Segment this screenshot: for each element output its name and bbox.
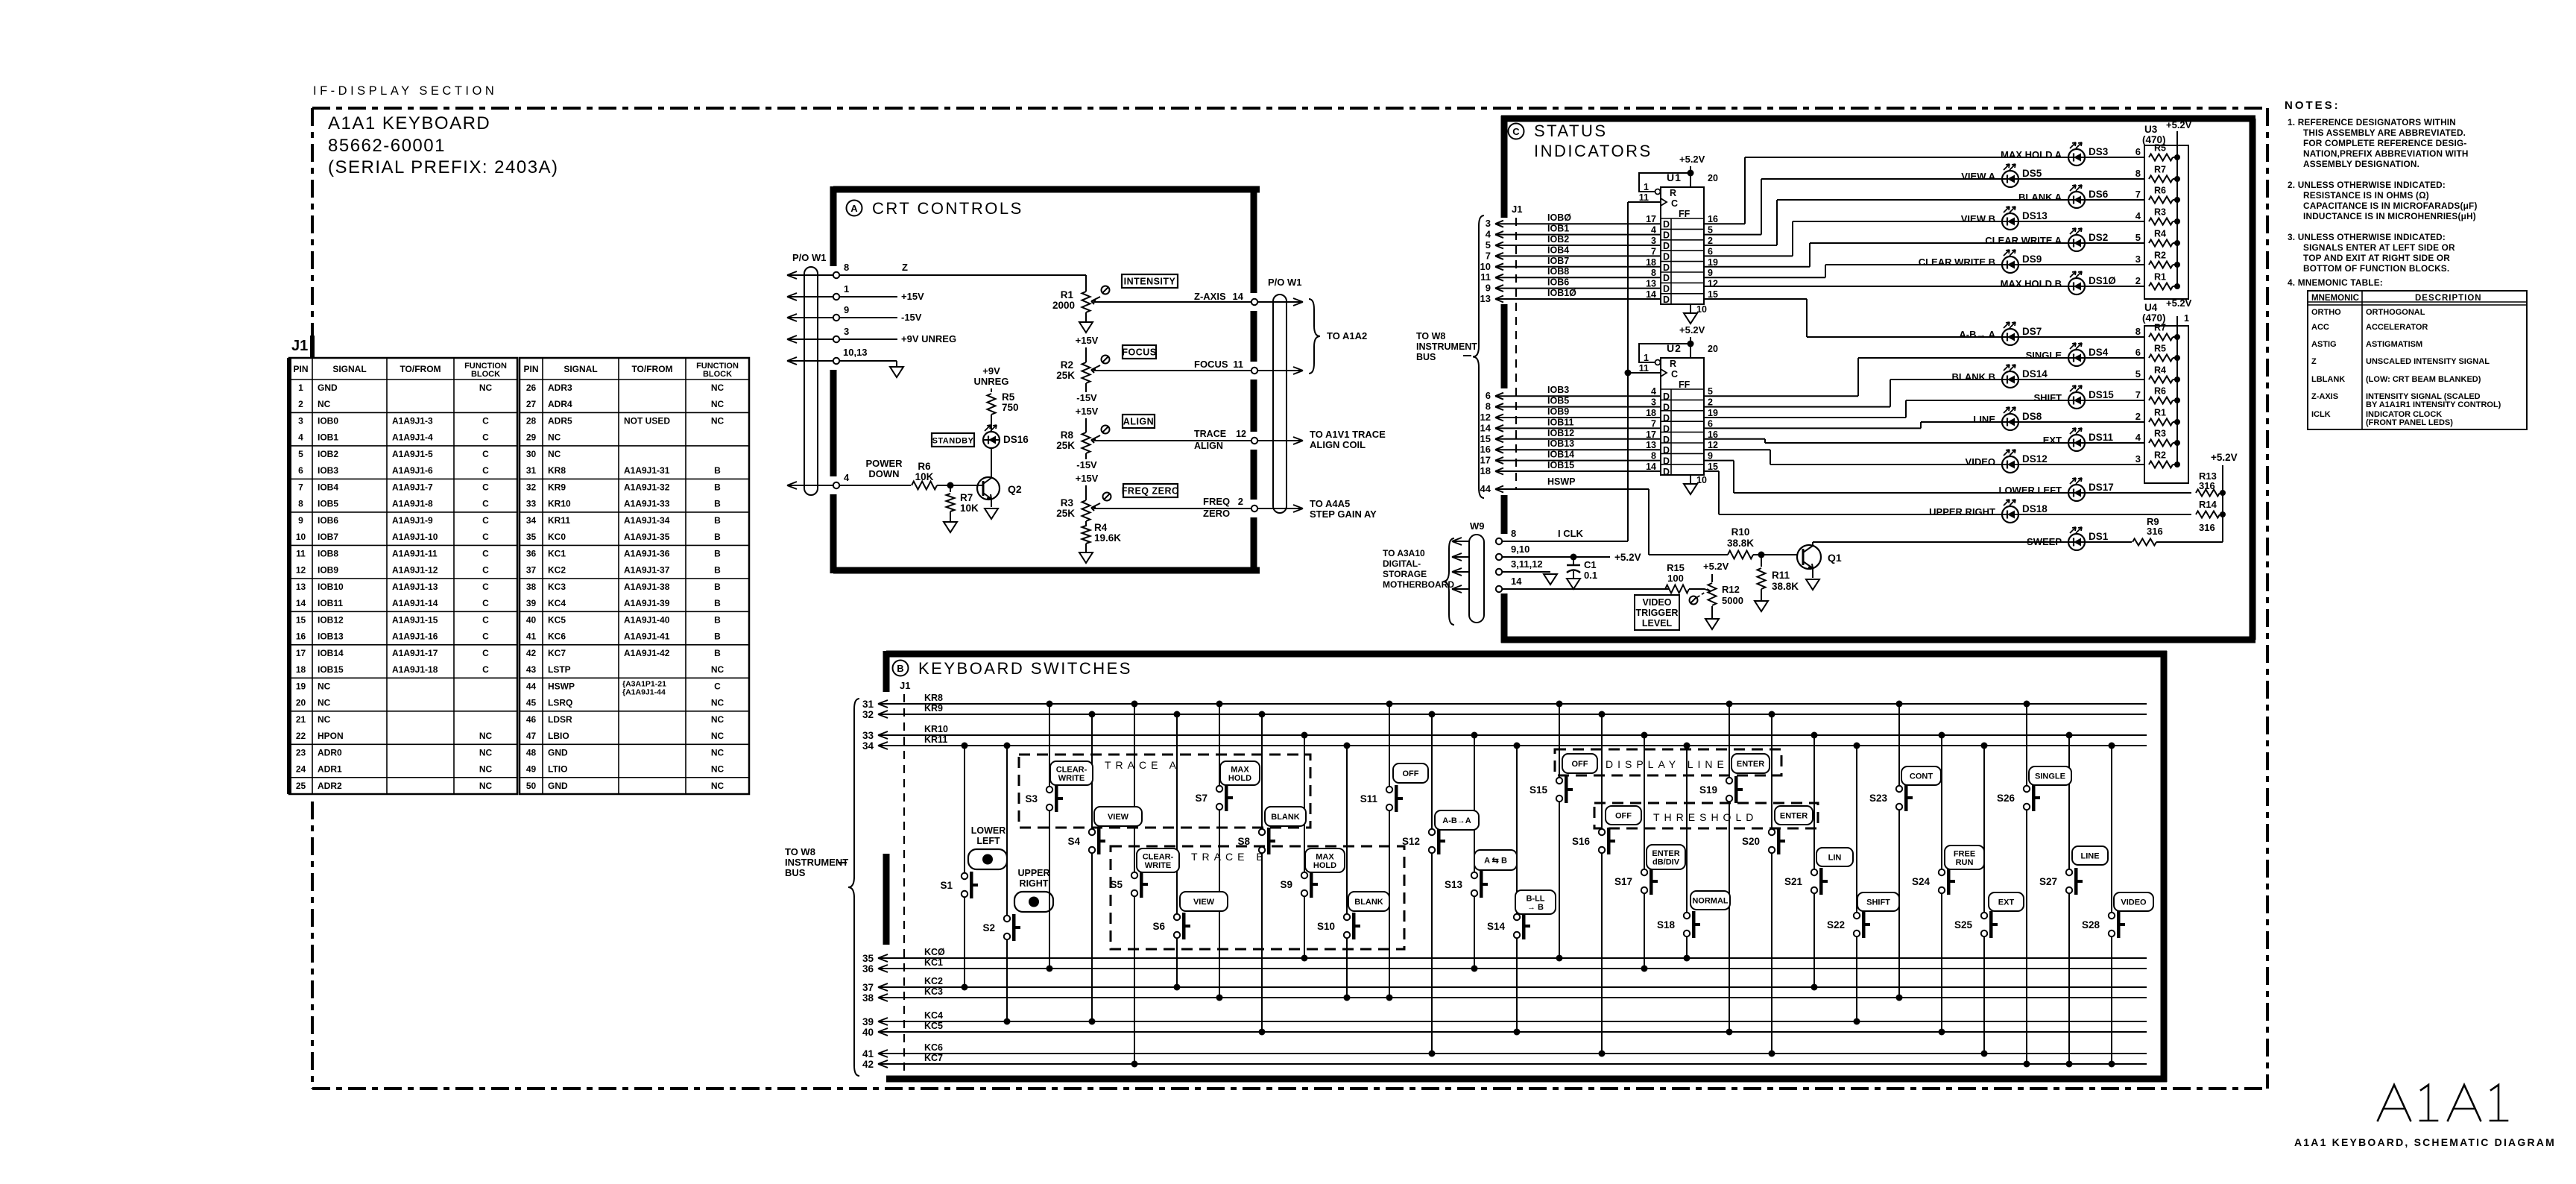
- LED DS8 LINE: [1921, 407, 2144, 430]
- svg-text:A1A9J1-7: A1A9J1-7: [392, 482, 433, 492]
- svg-text:15: 15: [296, 614, 306, 625]
- label box FOCUS: [1122, 345, 1156, 359]
- svg-text:5: 5: [1708, 225, 1713, 236]
- svg-text:2000: 2000: [1052, 300, 1075, 311]
- brace TO W8 INSTRUMENT BUS (keyboard): [785, 699, 859, 1076]
- svg-text:KC7: KC7: [924, 1053, 943, 1063]
- key label BLANK A: [1265, 807, 1306, 826]
- svg-text:NC: NC: [318, 399, 331, 409]
- svg-text:INSTRUMENT: INSTRUMENT: [1416, 341, 1477, 352]
- svg-text:SINGLE: SINGLE: [2035, 772, 2065, 781]
- switch S27: [2039, 732, 2083, 1068]
- svg-text:TO A1V1 TRACE: TO A1V1 TRACE: [1310, 429, 1386, 440]
- svg-text:KC1: KC1: [548, 548, 566, 558]
- svg-text:D: D: [1663, 262, 1670, 273]
- svg-text:KC4: KC4: [548, 598, 566, 608]
- svg-text:(FRONT PANEL LEDS): (FRONT PANEL LEDS): [2366, 418, 2453, 427]
- svg-text:34: 34: [526, 515, 537, 526]
- svg-text:IOB13: IOB13: [318, 632, 344, 642]
- svg-text:Z: Z: [902, 262, 908, 273]
- svg-text:UNREG: UNREG: [974, 376, 1009, 387]
- svg-text:NC: NC: [479, 764, 493, 775]
- svg-text:UPPER: UPPER: [1017, 868, 1049, 878]
- svg-text:LDSR: LDSR: [548, 714, 572, 725]
- svg-text:DS7: DS7: [2022, 326, 2042, 337]
- svg-text:S10: S10: [1317, 921, 1335, 932]
- svg-text:750: 750: [1002, 402, 1019, 413]
- svg-text:DISPLAY LINE: DISPLAY LINE: [1606, 758, 1729, 770]
- svg-text:ALIGN: ALIGN: [1194, 441, 1223, 451]
- dashed group box DISPLAY LINE: [1555, 749, 1781, 775]
- svg-text:TOP AND EXIT AT RIGHT SIDE OR: TOP AND EXIT AT RIGHT SIDE OR: [2303, 253, 2450, 263]
- svg-text:A1A9J1-8: A1A9J1-8: [392, 499, 433, 509]
- svg-text:R1: R1: [1061, 289, 1074, 300]
- svg-text:FREQ: FREQ: [1203, 496, 1230, 507]
- key label SHIFT: [1857, 892, 1899, 911]
- svg-text:14: 14: [1233, 291, 1244, 302]
- svg-text:35: 35: [526, 532, 537, 542]
- svg-text:SINGLE: SINGLE: [2026, 350, 2062, 361]
- routing U1 outputs to LEDs: [1704, 157, 1825, 337]
- svg-text:NC: NC: [318, 681, 331, 691]
- svg-text:IOB9: IOB9: [318, 565, 338, 576]
- svg-text:5000: 5000: [1722, 595, 1743, 606]
- svg-text:R: R: [1670, 359, 1676, 369]
- svg-text:8: 8: [844, 262, 849, 273]
- svg-text:R3: R3: [2154, 207, 2166, 218]
- svg-text:S12: S12: [1402, 836, 1420, 847]
- potentiometer R3 25K FREQ ZERO: [1056, 473, 1254, 521]
- svg-text:2: 2: [2135, 275, 2141, 286]
- svg-text:4: 4: [2135, 210, 2141, 221]
- svg-text:A1A9J1-14: A1A9J1-14: [392, 598, 438, 608]
- svg-text:POWER: POWER: [865, 458, 903, 469]
- svg-text:R5: R5: [2154, 143, 2166, 154]
- resistor R9 316: [2133, 516, 2223, 546]
- switch S15: [1529, 701, 1573, 962]
- svg-text:BLANK A: BLANK A: [2018, 192, 2062, 203]
- svg-text:12: 12: [1236, 429, 1246, 439]
- svg-text:DOWN: DOWN: [868, 468, 899, 479]
- svg-text:A1A9J1-16: A1A9J1-16: [392, 632, 438, 642]
- svg-text:CLEAR WRITE B: CLEAR WRITE B: [1919, 256, 1995, 268]
- svg-text:13: 13: [1646, 279, 1656, 289]
- wire +15V pin 1: [839, 283, 924, 302]
- svg-text:DS13: DS13: [2022, 210, 2048, 221]
- svg-text:IOB4: IOB4: [318, 482, 338, 492]
- svg-text:S19: S19: [1699, 784, 1717, 796]
- svg-text:R14: R14: [2199, 499, 2217, 510]
- svg-text:48: 48: [526, 747, 537, 758]
- svg-text:1: 1: [1644, 353, 1649, 363]
- svg-text:PIN: PIN: [293, 364, 308, 374]
- svg-text:INDICATORS: INDICATORS: [1534, 142, 1652, 160]
- svg-text:A1A9J1-31: A1A9J1-31: [624, 465, 670, 476]
- svg-text:14: 14: [1646, 289, 1656, 300]
- svg-text:15: 15: [1708, 462, 1718, 472]
- svg-text:ICLK: ICLK: [2311, 410, 2331, 419]
- svg-text:A1A9J1-32: A1A9J1-32: [624, 482, 670, 492]
- svg-text:12: 12: [1480, 412, 1491, 423]
- svg-text:B: B: [714, 532, 721, 542]
- svg-text:NC: NC: [318, 714, 331, 725]
- LED DS1Ø MAX HOLD B: [1704, 271, 2144, 295]
- resistor R10 38.8K: [1727, 526, 1797, 559]
- svg-text:IOB3: IOB3: [1547, 385, 1569, 395]
- svg-text:S18: S18: [1657, 919, 1676, 930]
- svg-text:R10: R10: [1731, 526, 1750, 538]
- svg-text:A1A9J1-37: A1A9J1-37: [624, 565, 670, 576]
- svg-text:HSWP: HSWP: [548, 681, 575, 691]
- svg-text:NC: NC: [711, 731, 724, 741]
- svg-text:TO W8: TO W8: [785, 846, 815, 857]
- svg-text:32: 32: [862, 709, 874, 720]
- svg-text:KC4: KC4: [924, 1010, 943, 1021]
- svg-text:J1: J1: [900, 680, 910, 691]
- svg-text:TO/FROM: TO/FROM: [400, 364, 441, 374]
- svg-text:5: 5: [298, 449, 303, 459]
- switch S5: [1110, 701, 1148, 1068]
- svg-text:NC: NC: [479, 731, 493, 741]
- svg-text:IOB6: IOB6: [1547, 277, 1569, 288]
- switch S14: [1487, 743, 1530, 1036]
- svg-text:10,13: 10,13: [843, 347, 868, 358]
- svg-text:46: 46: [526, 714, 537, 725]
- svg-text:9: 9: [1708, 268, 1713, 278]
- svg-text:9,10: 9,10: [1511, 544, 1529, 555]
- dashed group box TRACE A: [1019, 755, 1310, 828]
- svg-text:12: 12: [1708, 279, 1718, 289]
- key label VIEW B: [1180, 892, 1228, 911]
- IC U1 flip-flop: [1639, 154, 1718, 324]
- svg-text:14: 14: [296, 598, 306, 608]
- svg-text:ENTER: ENTER: [1780, 812, 1808, 821]
- svg-text:IOB5: IOB5: [318, 499, 338, 509]
- svg-text:DS4: DS4: [2089, 347, 2109, 358]
- svg-text:34: 34: [862, 740, 874, 752]
- svg-text:+5.2V: +5.2V: [2211, 452, 2238, 463]
- LED DS18 UPPER RIGHT row: [1719, 500, 2191, 523]
- svg-text:A1A9J1-15: A1A9J1-15: [392, 614, 438, 625]
- svg-text:KCØ: KCØ: [924, 947, 945, 957]
- switch S18: [1657, 743, 1700, 962]
- svg-text:S2: S2: [982, 922, 995, 933]
- transistor Q1: [1797, 542, 1842, 590]
- svg-text:KC7: KC7: [548, 648, 566, 658]
- svg-text:A1A9J1-33: A1A9J1-33: [624, 499, 670, 509]
- wire pins 3,11,12 to ground: [1502, 558, 1557, 585]
- svg-text:S26: S26: [1997, 793, 2015, 804]
- svg-text:S9: S9: [1280, 879, 1292, 890]
- svg-text:ASTIG: ASTIG: [2311, 340, 2337, 349]
- svg-text:ORTHO: ORTHO: [2311, 308, 2341, 317]
- svg-text:1: 1: [844, 283, 849, 295]
- connector P/O W1 left: [787, 252, 839, 495]
- svg-text:MAX HOLD A: MAX HOLD A: [2001, 149, 2062, 160]
- svg-text:ADR0: ADR0: [318, 747, 342, 758]
- svg-text:4: 4: [1651, 386, 1656, 397]
- svg-text:IOB7: IOB7: [318, 532, 338, 542]
- svg-text:FREQ ZERO: FREQ ZERO: [1122, 486, 1179, 497]
- svg-text:ENTER: ENTER: [1737, 760, 1764, 769]
- svg-text:13: 13: [1646, 440, 1656, 450]
- resistor R13 316: [2196, 470, 2226, 497]
- svg-text:NC: NC: [479, 747, 493, 758]
- svg-text:1: 1: [2184, 313, 2189, 324]
- svg-text:IOB8: IOB8: [1547, 266, 1569, 277]
- svg-text:NC: NC: [711, 714, 724, 725]
- svg-text:C: C: [714, 681, 721, 691]
- svg-text:R2: R2: [1061, 359, 1073, 371]
- svg-text:S4: S4: [1067, 836, 1080, 847]
- svg-text:19: 19: [1708, 257, 1718, 268]
- switch S26: [1997, 701, 2040, 1068]
- svg-text:R5: R5: [2154, 344, 2166, 354]
- mnemonic table: [2308, 291, 2527, 429]
- switch S19: [1699, 701, 1743, 1036]
- svg-text:Q2: Q2: [1008, 483, 1022, 495]
- svg-text:7: 7: [298, 482, 303, 492]
- svg-text:FF: FF: [1679, 209, 1690, 219]
- svg-text:25K: 25K: [1056, 508, 1075, 519]
- svg-text:45: 45: [526, 698, 537, 708]
- output FOCUS pin 11: [1194, 359, 1243, 370]
- brace TO A3A10 DIGITAL-STORAGE MOTHERBOARD: [1383, 538, 1454, 625]
- resistor R11 38.8K: [1755, 555, 1799, 611]
- svg-text:33: 33: [526, 499, 537, 509]
- routing U2 outputs to LEDs: [1704, 358, 1921, 514]
- svg-text:STEP GAIN AY: STEP GAIN AY: [1310, 508, 1377, 520]
- svg-text:LBIO: LBIO: [548, 731, 569, 741]
- svg-text:9: 9: [1486, 283, 1491, 294]
- svg-text:VIEW: VIEW: [1108, 813, 1129, 822]
- svg-text:10: 10: [1480, 261, 1491, 272]
- svg-text:DS1Ø: DS1Ø: [2089, 275, 2116, 286]
- svg-text:14: 14: [1511, 576, 1522, 587]
- svg-text:8: 8: [1486, 401, 1491, 412]
- svg-text:ALIGN COIL: ALIGN COIL: [1310, 439, 1366, 450]
- svg-text:KC0: KC0: [548, 532, 566, 542]
- svg-text:S20: S20: [1742, 836, 1760, 847]
- svg-text:20: 20: [1708, 344, 1718, 354]
- svg-text:29: 29: [526, 432, 537, 443]
- svg-text:SHIFT: SHIFT: [2033, 392, 2062, 403]
- resistor R6 10K: [912, 461, 983, 490]
- svg-text:4: 4: [1651, 225, 1656, 236]
- svg-text:NC: NC: [711, 747, 724, 758]
- key label EXT: [1989, 892, 2024, 911]
- svg-text:B: B: [714, 482, 721, 492]
- svg-text:NC: NC: [711, 415, 724, 426]
- svg-text:4: 4: [298, 432, 303, 443]
- svg-text:R3: R3: [1061, 497, 1074, 508]
- svg-text:0.1: 0.1: [1584, 570, 1597, 581]
- net ICLK vertical: [1625, 202, 1661, 541]
- svg-text:C: C: [482, 614, 489, 625]
- connector J1 pin table: [289, 338, 749, 794]
- svg-text:16: 16: [296, 632, 306, 642]
- svg-text:D: D: [1663, 284, 1670, 295]
- svg-text:GND: GND: [548, 781, 568, 791]
- switch S22: [1827, 743, 1870, 1025]
- svg-text:DS9: DS9: [2022, 254, 2042, 265]
- svg-text:D: D: [1663, 445, 1670, 456]
- svg-text:A1A9J1-13: A1A9J1-13: [392, 582, 438, 592]
- svg-text:4: 4: [844, 472, 850, 483]
- svg-text:C: C: [1512, 126, 1520, 137]
- svg-text:DS1: DS1: [2089, 531, 2109, 542]
- svg-text:LOWER LEFT: LOWER LEFT: [1999, 485, 2062, 496]
- svg-text:3. UNLESS OTHERWISE INDICATED:: 3. UNLESS OTHERWISE INDICATED:: [2288, 232, 2446, 242]
- svg-text:NOTES:: NOTES:: [2285, 99, 2340, 112]
- svg-text:5: 5: [1708, 386, 1713, 397]
- svg-text:D: D: [1663, 219, 1670, 230]
- svg-text:3: 3: [1651, 236, 1656, 246]
- svg-text:R6: R6: [2154, 386, 2166, 397]
- brace TO A1A2: [1309, 299, 1367, 374]
- svg-text:CLEAR WRITE A: CLEAR WRITE A: [1985, 235, 2062, 246]
- svg-text:C: C: [482, 632, 489, 642]
- svg-text:C: C: [482, 449, 489, 459]
- svg-text:IOBØ: IOBØ: [1547, 212, 1571, 223]
- svg-text:ADR5: ADR5: [548, 415, 572, 426]
- wire I CLK pin 8: [1502, 528, 1628, 541]
- svg-text:MAX HOLD B: MAX HOLD B: [2001, 278, 2062, 289]
- svg-text:38: 38: [526, 582, 537, 592]
- svg-text:PIN: PIN: [523, 364, 538, 374]
- svg-text:KC5: KC5: [548, 614, 566, 625]
- svg-text:37: 37: [526, 565, 537, 576]
- key label B-LL to B: [1515, 890, 1556, 914]
- key label BLANK B: [1348, 892, 1389, 911]
- svg-text:33: 33: [862, 730, 874, 741]
- switch S6: [1152, 711, 1190, 991]
- svg-text:26: 26: [526, 382, 537, 393]
- svg-text:EXT: EXT: [1998, 898, 2015, 907]
- svg-text:KC3: KC3: [924, 986, 943, 997]
- svg-text:VIDEO: VIDEO: [1966, 456, 1995, 467]
- svg-text:NC: NC: [548, 449, 561, 459]
- svg-text:41: 41: [526, 632, 537, 642]
- svg-text:KR11: KR11: [924, 734, 947, 745]
- svg-text:42: 42: [862, 1059, 874, 1070]
- LED DS11 EXT: [1765, 428, 2144, 451]
- svg-text:17: 17: [296, 648, 306, 658]
- svg-text:KR11: KR11: [548, 515, 570, 526]
- svg-text:B: B: [714, 582, 721, 592]
- svg-text:25: 25: [296, 781, 306, 791]
- svg-text:D: D: [1663, 413, 1670, 423]
- key label OFF display: [1393, 763, 1428, 783]
- svg-text:OFF: OFF: [1403, 769, 1419, 778]
- svg-text:KR9: KR9: [548, 482, 566, 492]
- svg-text:IOB15: IOB15: [318, 664, 344, 675]
- svg-text:CLEAR-: CLEAR-: [1143, 852, 1174, 861]
- wire -15V pin 9: [839, 304, 922, 323]
- svg-text:39: 39: [862, 1016, 874, 1027]
- svg-text:11: 11: [296, 548, 306, 558]
- svg-text:CONT: CONT: [1910, 772, 1933, 781]
- LED DS2 CLEAR WRITE A: [1810, 228, 2144, 251]
- key label MAX HOLD A: [1220, 761, 1260, 785]
- svg-text:SIGNAL: SIGNAL: [563, 364, 597, 374]
- svg-text:D: D: [1663, 435, 1670, 445]
- svg-text:S13: S13: [1445, 879, 1463, 890]
- svg-text:C: C: [482, 482, 489, 492]
- LED DS1 SWEEP row: [1813, 527, 2132, 550]
- svg-text:A-B→ A: A-B→ A: [1959, 329, 1995, 340]
- key label OFF threshold: [1606, 806, 1641, 825]
- svg-text:13: 13: [1480, 293, 1491, 304]
- svg-text:8: 8: [1511, 528, 1516, 539]
- label box INTENSITY: [1122, 274, 1178, 288]
- svg-text:A: A: [850, 203, 858, 214]
- svg-text:R12: R12: [1722, 584, 1740, 595]
- svg-text:+5.2V: +5.2V: [2166, 119, 2192, 130]
- svg-text:B: B: [714, 499, 721, 509]
- LED DS12 VIDEO: [1770, 450, 2144, 473]
- svg-text:4: 4: [1486, 229, 1491, 240]
- svg-text:NC: NC: [479, 382, 493, 393]
- wire Z pin 8: [839, 262, 1086, 275]
- svg-text:ASSEMBLY DESIGNATION.: ASSEMBLY DESIGNATION.: [2303, 159, 2419, 169]
- svg-text:(LOW: CRT BEAM BLANKED): (LOW: CRT BEAM BLANKED): [2366, 375, 2481, 384]
- svg-text:31: 31: [526, 465, 537, 476]
- key label A-B exchange: [1474, 850, 1517, 870]
- svg-text:7: 7: [1651, 418, 1656, 429]
- svg-text:TO/FROM: TO/FROM: [631, 364, 672, 374]
- svg-text:6: 6: [1486, 390, 1491, 401]
- svg-text:LBLANK: LBLANK: [2311, 375, 2345, 384]
- connector P/O W1 right: [1251, 277, 1303, 513]
- svg-text:A1A9J1-34: A1A9J1-34: [624, 515, 670, 526]
- svg-text:8: 8: [2135, 326, 2141, 337]
- svg-text:CRT CONTROLS: CRT CONTROLS: [872, 199, 1023, 218]
- svg-text:D: D: [1663, 295, 1670, 305]
- svg-text:S25: S25: [1954, 919, 1973, 930]
- svg-text:IOB1Ø: IOB1Ø: [1547, 288, 1576, 298]
- svg-text:SHIFT: SHIFT: [1866, 898, 1890, 907]
- switch S8: [1237, 711, 1275, 1036]
- svg-text:CAPACITANCE IS IN MICROFARADS(: CAPACITANCE IS IN MICROFARADS(μF): [2303, 201, 2478, 211]
- svg-text:GND: GND: [318, 382, 338, 393]
- svg-text:7: 7: [2135, 389, 2141, 400]
- svg-text:47: 47: [526, 731, 537, 741]
- svg-text:35: 35: [862, 953, 874, 964]
- svg-text:19.6K: 19.6K: [1094, 532, 1121, 544]
- svg-text:316: 316: [2147, 526, 2163, 537]
- svg-text:2: 2: [1708, 397, 1713, 408]
- svg-text:B: B: [714, 548, 721, 558]
- svg-text:1: 1: [298, 382, 303, 393]
- svg-text:LEVEL: LEVEL: [1642, 618, 1673, 629]
- svg-text:-15V: -15V: [1076, 459, 1097, 470]
- svg-text:LINE: LINE: [1973, 414, 1995, 425]
- svg-text:C: C: [482, 415, 489, 426]
- svg-text:IF-DISPLAY SECTION: IF-DISPLAY SECTION: [313, 84, 497, 98]
- svg-text:RESISTANCE IS IN OHMS (Ω): RESISTANCE IS IN OHMS (Ω): [2303, 190, 2429, 201]
- svg-text:28: 28: [526, 415, 537, 426]
- svg-text:KR10: KR10: [924, 724, 948, 734]
- svg-text:36: 36: [526, 548, 537, 558]
- svg-text:VIEW B: VIEW B: [1961, 213, 1995, 224]
- svg-text:38: 38: [862, 992, 874, 1004]
- svg-text:C: C: [482, 432, 489, 443]
- svg-text:TO A3A10: TO A3A10: [1383, 548, 1425, 558]
- svg-text:NC: NC: [318, 698, 331, 708]
- svg-text:EXT: EXT: [2043, 435, 2062, 446]
- svg-text:HSWP: HSWP: [1547, 476, 1576, 487]
